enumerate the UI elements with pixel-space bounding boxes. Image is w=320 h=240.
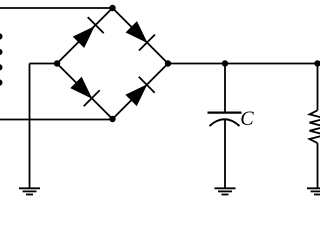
node: capacitor tap (222, 60, 228, 66)
wire: bridge side top-left (57, 8, 113, 64)
wire: capacitor bottom lead (224, 120, 226, 189)
ground (left) (19, 188, 40, 194)
wire: bridge side top-right (113, 8, 169, 64)
transformer secondary coil (clipped at left edge) (0, 33, 3, 86)
wire: bridge side bottom-left (57, 64, 113, 120)
wire: bridge left vertex to ground branch (30, 63, 58, 65)
wire: coil bottom to bridge bottom vertex (0, 119, 113, 121)
node: bridge right vertex (165, 60, 171, 66)
diode D4 bottom-right (127, 77, 155, 105)
resistor R (load, clipped at right edge) (310, 110, 320, 143)
wire: ground branch vertical (crosses AC wire, no junction) (29, 64, 31, 189)
diode D3 bottom-left (72, 78, 100, 106)
wire: bridge right vertex to output rail (168, 63, 318, 65)
node: bridge bottom vertex (109, 116, 115, 122)
wire: bridge side bottom-right (113, 64, 169, 120)
wire: resistor bottom lead (317, 143, 319, 188)
wire: coil top to bridge top vertex (0, 7, 113, 9)
ground (capacitor) (215, 188, 236, 194)
capacitor C curved plate (210, 119, 240, 126)
ground (resistor, clipped at right edge) (307, 188, 320, 194)
capacitor C top plate (208, 111, 242, 113)
wire: resistor top lead (317, 64, 319, 111)
label C (241, 111, 253, 124)
node: load tap (314, 60, 320, 66)
diode D2 top-right (127, 23, 155, 51)
diode D1 top-left (74, 17, 103, 46)
node: bridge top vertex (109, 5, 115, 11)
node: bridge left vertex (54, 60, 60, 66)
wire: capacitor top lead (224, 64, 226, 113)
